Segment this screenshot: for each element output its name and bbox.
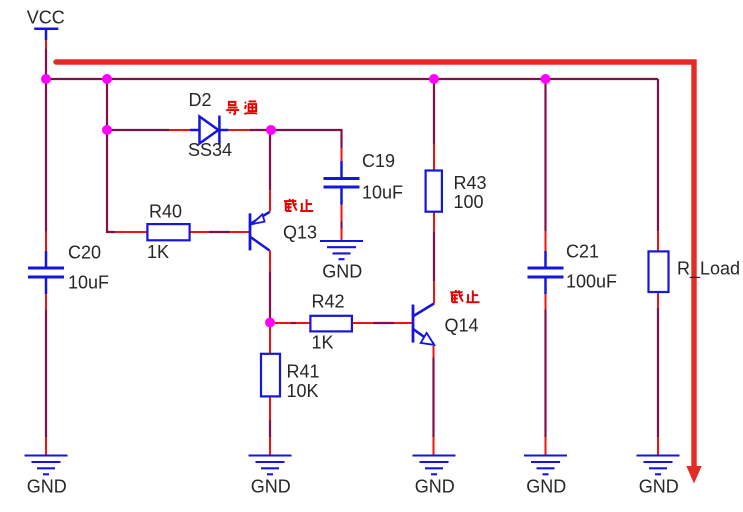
svg-text:Q13: Q13 <box>283 223 317 243</box>
svg-text:GND: GND <box>27 477 67 497</box>
svg-text:D2: D2 <box>189 90 212 110</box>
svg-text:10K: 10K <box>287 381 319 401</box>
svg-text:C20: C20 <box>68 243 101 263</box>
svg-text:GND: GND <box>415 477 455 497</box>
svg-text:GND: GND <box>526 477 566 497</box>
svg-text:GND: GND <box>251 477 291 497</box>
svg-text:R40: R40 <box>149 202 182 222</box>
svg-text:C21: C21 <box>566 242 599 262</box>
svg-text:GND: GND <box>639 477 679 497</box>
svg-text:C19: C19 <box>362 151 395 171</box>
svg-text:R41: R41 <box>287 362 320 382</box>
svg-text:VCC: VCC <box>27 8 65 28</box>
svg-text:1K: 1K <box>147 242 169 262</box>
svg-text:100uF: 100uF <box>566 272 617 292</box>
svg-text:SS34: SS34 <box>188 140 232 160</box>
svg-text:100: 100 <box>454 192 484 212</box>
svg-text:Q14: Q14 <box>445 316 479 336</box>
svg-text:1K: 1K <box>312 333 334 353</box>
svg-text:R43: R43 <box>454 173 487 193</box>
svg-text:R_Load: R_Load <box>677 259 740 280</box>
svg-text:GND: GND <box>322 262 362 282</box>
svg-text:10uF: 10uF <box>68 273 109 293</box>
svg-text:R42: R42 <box>312 292 345 312</box>
svg-text:10uF: 10uF <box>362 183 403 203</box>
